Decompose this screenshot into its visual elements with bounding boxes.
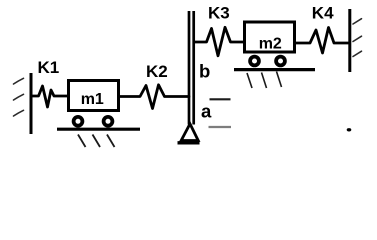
wall right hatch 3 — [353, 51, 362, 56]
ground under m1 — [57, 128, 140, 131]
lever bar right line — [192, 11, 195, 125]
svg-text:m2: m2 — [259, 36, 282, 53]
mass m2 — [245, 22, 295, 52]
svg-text:K3: K3 — [208, 3, 230, 22]
ground m2 hatch 3 — [277, 72, 282, 88]
wall right — [348, 9, 351, 72]
wall left hatch 3 — [14, 110, 24, 116]
dot bottom right — [347, 128, 352, 131]
ground m2 hatch 2 — [262, 73, 267, 89]
ground m1 hatch 2 — [93, 135, 101, 148]
svg-text:K1: K1 — [38, 58, 60, 77]
tick upper (near a) — [210, 98, 231, 100]
ground m1 hatch 3 — [107, 135, 115, 148]
wall right hatch 1 — [353, 19, 362, 24]
wall left — [30, 73, 33, 134]
tick lower (gray) — [209, 126, 232, 128]
svg-text:K4: K4 — [312, 4, 334, 23]
wall right hatch 2 — [353, 36, 362, 41]
wheel m2 left — [250, 57, 259, 66]
spring K2 — [120, 85, 189, 109]
ground m2 hatch 1 — [247, 73, 252, 88]
pivot base line — [178, 141, 200, 144]
wall left hatch 2 — [14, 94, 24, 100]
svg-text:b: b — [199, 60, 210, 81]
wall left hatch 1 — [14, 78, 24, 84]
spring K4 — [296, 28, 349, 54]
wheel m1 right — [104, 117, 113, 126]
ground m1 hatch 1 — [78, 135, 86, 148]
wheel m2 right — [276, 57, 285, 66]
spring K1 — [32, 86, 68, 107]
pivot triangle — [181, 124, 198, 141]
svg-text:m1: m1 — [81, 91, 104, 108]
spring K3 — [195, 27, 244, 56]
ground under m2 — [234, 68, 315, 71]
svg-text:K2: K2 — [146, 62, 168, 81]
mass m1 — [69, 81, 119, 111]
lever bar left line — [188, 11, 191, 125]
wheel m1 left — [74, 117, 83, 126]
svg-text:a: a — [201, 101, 212, 122]
